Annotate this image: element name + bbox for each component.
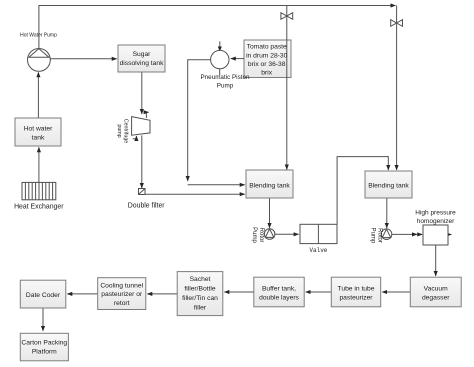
svg-text:Double filter: Double filter: [128, 203, 165, 210]
svg-text:Carton Packing: Carton Packing: [21, 340, 67, 347]
svg-text:dissolving tank: dissolving tank: [120, 60, 165, 67]
svg-text:Cooling tunnel: Cooling tunnel: [100, 283, 143, 290]
svg-text:Pump: Pump: [370, 228, 376, 244]
svg-text:brix or 36-38: brix or 36-38: [248, 61, 286, 68]
svg-text:filler/Bottle: filler/Bottle: [184, 286, 216, 293]
svg-text:in drum 28-30: in drum 28-30: [246, 52, 288, 59]
svg-text:tank: tank: [32, 134, 45, 141]
svg-text:Rotor: Rotor: [377, 228, 383, 243]
svg-text:Hot water: Hot water: [24, 125, 53, 132]
svg-text:pump: pump: [116, 124, 122, 137]
svg-text:Buffer tank,: Buffer tank,: [262, 286, 296, 293]
svg-text:Heat Exchanger: Heat Exchanger: [14, 204, 64, 211]
svg-text:Pump: Pump: [251, 227, 257, 243]
svg-text:Sachet: Sachet: [190, 276, 211, 283]
svg-text:Platform: Platform: [32, 349, 57, 356]
svg-text:Hot Water Pump: Hot Water Pump: [20, 33, 57, 39]
svg-text:Centrifuge: Centrifuge: [123, 119, 129, 143]
svg-text:Vacuum: Vacuum: [424, 286, 448, 293]
svg-text:High pressure: High pressure: [415, 210, 456, 217]
svg-text:degasser: degasser: [422, 295, 450, 302]
svg-text:filler: filler: [194, 305, 207, 312]
svg-text:Tube in tube: Tube in tube: [338, 286, 375, 293]
svg-text:Blending tank: Blending tank: [368, 183, 409, 190]
svg-text:double layers: double layers: [259, 295, 299, 302]
svg-text:Date Coder: Date Coder: [26, 292, 61, 299]
svg-text:retort: retort: [114, 300, 130, 307]
svg-text:Tomato paste: Tomato paste: [247, 44, 287, 51]
svg-text:Rotor: Rotor: [258, 228, 264, 243]
svg-text:Blending tank: Blending tank: [249, 183, 290, 190]
svg-text:filler/Tin can: filler/Tin can: [182, 295, 218, 302]
svg-text:Sugar: Sugar: [133, 51, 152, 58]
svg-text:homogenizer: homogenizer: [417, 218, 455, 225]
svg-text:brix: brix: [261, 70, 272, 77]
svg-text:pasteurizer or: pasteurizer or: [101, 291, 143, 298]
svg-text:Pump: Pump: [217, 83, 234, 90]
svg-text:pasteurizer: pasteurizer: [339, 295, 373, 302]
svg-text:Pneumatic Piston: Pneumatic Piston: [200, 74, 249, 81]
svg-text:Valve: Valve: [309, 247, 327, 254]
